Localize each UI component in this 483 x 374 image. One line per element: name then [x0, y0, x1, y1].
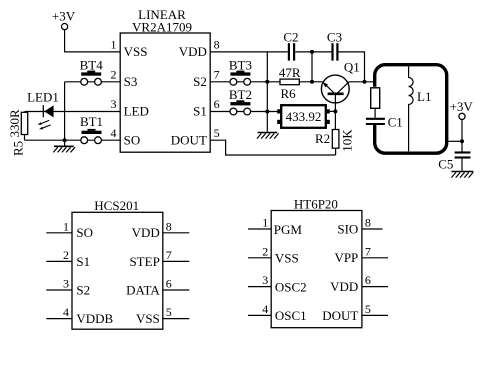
- IC U1 title LINEAR VR2A1709: [132, 7, 192, 34]
- wire R6 to Q1 emitter: [299, 81, 322, 83]
- svg-text:3: 3: [262, 273, 268, 287]
- svg-text:1: 1: [63, 219, 69, 233]
- svg-text:BT3: BT3: [229, 58, 252, 73]
- IC U2 HCS201 outline: [72, 212, 163, 329]
- svg-text:C5: C5: [438, 156, 453, 171]
- svg-text:LED1: LED1: [27, 90, 59, 105]
- wire U1 pin 8 VDD row to C2: [210, 51, 288, 53]
- svg-text:1: 1: [111, 38, 117, 52]
- svg-text:PGM: PGM: [274, 222, 303, 237]
- junction dot +3V node: [460, 139, 464, 143]
- svg-text:VDDB: VDDB: [76, 311, 113, 326]
- svg-text:DOUT: DOUT: [322, 308, 358, 323]
- junction dot rail/pin6: [265, 110, 269, 114]
- svg-text:R6: R6: [281, 86, 297, 101]
- svg-text:7: 7: [214, 68, 220, 82]
- svg-text:10K: 10K: [340, 129, 355, 152]
- capacitor C2: [283, 29, 298, 60]
- wire U1 pin 2 S3 row: [65, 81, 121, 83]
- svg-text:5: 5: [365, 302, 371, 316]
- svg-text:HT6P20: HT6P20: [294, 197, 338, 212]
- U2 left pin wires: [46, 233, 72, 319]
- U3 right pin names SIO VPP VDD DOUT: [322, 221, 358, 322]
- loop antenna tank box: [375, 65, 447, 154]
- U2 right pin wires: [163, 233, 190, 319]
- svg-text:R2: R2: [315, 131, 330, 146]
- svg-text:2: 2: [262, 244, 268, 258]
- svg-text:4: 4: [262, 302, 268, 316]
- svg-text:OSC2: OSC2: [275, 279, 307, 294]
- wire C2/C3 node down to base row: [311, 52, 313, 82]
- resistor R6 47R body: [280, 79, 299, 85]
- wire U1 pin 6 S1 row through BT2: [210, 111, 277, 113]
- svg-text:3: 3: [63, 277, 69, 291]
- wire U1 pin 5 DOUT to R2 bottom: [210, 140, 335, 155]
- capacitor C1: [366, 114, 403, 129]
- svg-text:+3V: +3V: [450, 99, 474, 114]
- svg-text:3: 3: [111, 97, 117, 111]
- U1 left pin numbers 1-4: [111, 38, 117, 140]
- inductor L1: [409, 66, 432, 151]
- tank trimmer element body: [371, 88, 380, 109]
- junction dot collector node: [363, 80, 367, 84]
- wire Q1 collector to tank: [349, 81, 375, 83]
- svg-text:VR2A1709: VR2A1709: [132, 19, 192, 34]
- +3V terminal circle (left): [62, 24, 68, 30]
- svg-text:Q1: Q1: [344, 59, 360, 74]
- U2 right pin numbers 8-5: [166, 219, 172, 319]
- svg-text:SIO: SIO: [337, 221, 358, 236]
- svg-text:4: 4: [63, 305, 69, 319]
- junction dot base node: [333, 109, 337, 113]
- svg-text:C3: C3: [327, 29, 342, 44]
- svg-text:L1: L1: [417, 89, 431, 104]
- SAW resonator 433.92 body: [277, 105, 330, 128]
- svg-text:2: 2: [63, 248, 69, 262]
- ground symbol (right): [451, 172, 473, 178]
- junction dot C2/C3 node: [310, 50, 314, 54]
- svg-text:LED: LED: [124, 104, 149, 119]
- U2 right pin names VDD STEP DATA VSS: [126, 225, 160, 326]
- svg-text:S1: S1: [193, 104, 207, 119]
- LED LED1: [27, 90, 59, 130]
- U3 right pin numbers 8-5: [365, 216, 371, 316]
- junction dot base row: [310, 80, 314, 84]
- wire resonator to base node: [330, 110, 336, 112]
- svg-text:SO: SO: [76, 225, 93, 240]
- svg-text:6: 6: [166, 277, 172, 291]
- wire +3V right down to C5: [461, 120, 463, 152]
- svg-text:S1: S1: [76, 254, 90, 269]
- svg-text:VSS: VSS: [136, 311, 160, 326]
- wire C2 to C3: [295, 51, 331, 53]
- capacitor C3: [327, 29, 342, 60]
- wire U1 pin 7 S2 row through BT3 and R6: [210, 81, 280, 83]
- IC U1 VR2A1709 outline: [120, 33, 210, 152]
- wire middle ground rail: [266, 52, 268, 132]
- wire left ground rail: [64, 82, 66, 140]
- svg-text:STEP: STEP: [129, 254, 159, 269]
- svg-text:VDD: VDD: [330, 279, 358, 294]
- svg-text:VDD: VDD: [132, 225, 160, 240]
- svg-text:4: 4: [111, 126, 117, 140]
- svg-text:7: 7: [166, 248, 172, 262]
- svg-text:5: 5: [214, 126, 220, 140]
- svg-text:C1: C1: [388, 114, 403, 129]
- svg-text:HCS201: HCS201: [94, 198, 139, 213]
- resistor R2 body: [332, 111, 339, 155]
- svg-text:C2: C2: [283, 29, 298, 44]
- resistor R5 330R: [21, 112, 27, 140]
- U1 right pin numbers 8-5: [214, 38, 220, 140]
- svg-text:VPP: VPP: [334, 250, 358, 265]
- U3 left pin wires: [248, 229, 271, 315]
- svg-text:330R: 330R: [7, 109, 22, 138]
- svg-text:47R: 47R: [279, 65, 301, 80]
- transistor Q1: [321, 59, 359, 111]
- wire +3V to U1 pin 1 VSS: [65, 30, 121, 52]
- IC U3 HT6P20 outline: [271, 211, 362, 328]
- svg-text:S2: S2: [76, 282, 90, 297]
- wire C3 to collector corner: [339, 52, 365, 82]
- svg-text:7: 7: [365, 244, 371, 258]
- ground symbol (middle rail): [257, 133, 279, 139]
- svg-text:+3V: +3V: [52, 9, 76, 24]
- svg-text:6: 6: [214, 97, 220, 111]
- svg-text:R5: R5: [11, 141, 26, 156]
- svg-text:OSC1: OSC1: [275, 308, 307, 323]
- U3 right pin wires: [362, 229, 388, 315]
- svg-text:VDD: VDD: [179, 44, 207, 59]
- ground symbol (left): [53, 140, 75, 152]
- wire U1 pin 3 LED row: [25, 111, 121, 113]
- border break for tank elements: [372, 87, 377, 125]
- U1 right pin names VDD S2 S1 DOUT: [171, 44, 207, 147]
- svg-text:BT2: BT2: [229, 87, 252, 102]
- U3 left pin numbers 1-4: [262, 216, 268, 316]
- svg-text:8: 8: [166, 219, 172, 233]
- U1 left pin names VSS S3 LED SO: [124, 44, 149, 147]
- svg-text:5: 5: [166, 305, 172, 319]
- svg-text:BT4: BT4: [80, 58, 104, 73]
- +3V terminal circle (right): [459, 113, 465, 119]
- svg-text:SO: SO: [124, 132, 141, 147]
- svg-text:8: 8: [214, 38, 220, 52]
- junction dot rail/pin7: [265, 80, 269, 84]
- svg-text:1: 1: [262, 216, 268, 230]
- wire C5 to ground: [461, 158, 463, 171]
- svg-text:DATA: DATA: [126, 282, 160, 297]
- svg-text:433.92: 433.92: [286, 109, 322, 124]
- pushbutton BT1: [80, 114, 103, 143]
- U2 left pin names SO S1 S2 VDDB: [76, 225, 113, 326]
- junction dot left ground node: [63, 138, 67, 142]
- svg-text:8: 8: [365, 216, 371, 230]
- svg-text:DOUT: DOUT: [171, 132, 207, 147]
- pushbutton BT2: [229, 87, 252, 115]
- pushbutton BT3: [229, 58, 252, 86]
- svg-text:6: 6: [365, 273, 371, 287]
- svg-text:S2: S2: [193, 74, 207, 89]
- pushbutton BT4: [80, 58, 104, 86]
- svg-text:S3: S3: [124, 74, 138, 89]
- svg-text:2: 2: [111, 68, 117, 82]
- svg-text:BT1: BT1: [80, 114, 103, 129]
- svg-text:VSS: VSS: [275, 251, 299, 266]
- wire U1 pin 4 SO row: [25, 139, 121, 141]
- svg-text:VSS: VSS: [124, 44, 148, 59]
- U2 left pin numbers 1-4: [63, 219, 69, 319]
- wire trimmer to C1: [374, 108, 376, 118]
- wire tank to +3V node: [447, 140, 462, 142]
- U3 left pin names PGM VSS OSC2 OSC1: [274, 222, 307, 323]
- capacitor C5: [438, 153, 470, 172]
